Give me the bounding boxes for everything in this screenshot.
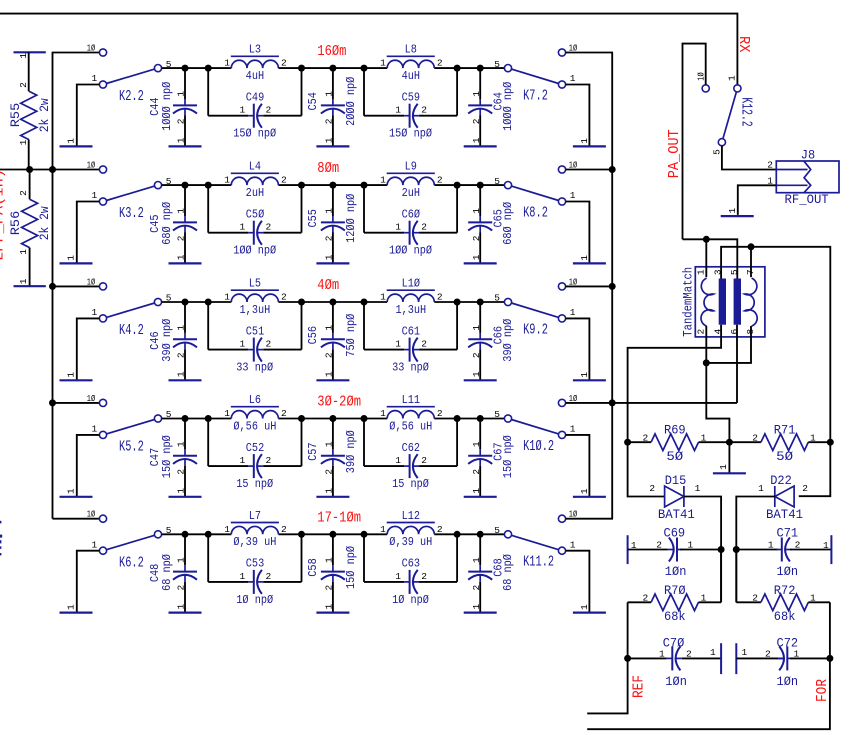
svg-text:C63: C63	[402, 558, 420, 571]
svg-text:1: 1	[710, 647, 716, 658]
capacitor C62 (parallel with L11)	[363, 419, 365, 467]
junction node x=332.9	[329, 182, 336, 189]
capacitor C64	[479, 68, 481, 99]
capacitor C66	[479, 302, 481, 333]
diode D22	[775, 486, 794, 507]
svg-text:1: 1	[718, 464, 729, 470]
ground	[721, 215, 754, 217]
svg-text:C5Ø: C5Ø	[246, 209, 265, 222]
ground	[169, 379, 202, 381]
svg-text:1: 1	[471, 371, 482, 377]
svg-text:1: 1	[324, 325, 335, 331]
svg-text:1: 1	[380, 292, 386, 303]
capacitor C55	[332, 185, 334, 216]
svg-text:68k: 68k	[774, 610, 796, 625]
junction node x=457.1	[454, 65, 461, 72]
junction node x=457.1	[454, 531, 461, 538]
svg-text:2: 2	[795, 540, 801, 551]
inductor L8	[387, 60, 434, 68]
junction node x=364	[361, 182, 368, 189]
junction right bus row 4	[609, 399, 616, 406]
svg-text:C57: C57	[307, 442, 320, 460]
svg-text:2: 2	[471, 235, 482, 241]
capacitor C71	[736, 549, 778, 551]
svg-text:RF_OUT: RF_OUT	[785, 192, 830, 207]
wire FOR output	[587, 658, 830, 729]
ground	[573, 379, 606, 381]
wire between inductors	[278, 301, 387, 303]
junction node x=332.9	[329, 531, 336, 538]
svg-text:2: 2	[437, 175, 443, 186]
diode D15	[665, 486, 684, 507]
svg-text:Ø,39 uH: Ø,39 uH	[389, 537, 432, 550]
wire relay pin 5 to L input	[162, 184, 232, 186]
capacitor C67	[479, 419, 481, 450]
wire between inductors	[278, 67, 387, 69]
wire center node to ground	[728, 442, 730, 473]
wire relay pin 1 to ground	[566, 202, 590, 264]
svg-text:1: 1	[239, 455, 245, 466]
svg-text:REF: REF	[631, 675, 648, 698]
svg-text:C53: C53	[246, 558, 264, 571]
capacitor C50 (parallel with L4)	[207, 185, 209, 233]
wire relay pin 1 to ground	[566, 435, 590, 497]
svg-text:1Ø: 1Ø	[87, 159, 95, 170]
svg-text:1: 1	[395, 455, 401, 466]
junction node x=301.5	[298, 531, 305, 538]
svg-text:C51: C51	[246, 326, 265, 339]
terminal pin 1 of R56 (bottom bar)	[14, 285, 46, 287]
svg-text:1: 1	[810, 432, 816, 443]
svg-text:2: 2	[686, 649, 692, 660]
svg-text:1: 1	[687, 540, 693, 551]
svg-text:K4.2: K4.2	[119, 321, 144, 338]
svg-text:1: 1	[324, 254, 335, 260]
svg-text:1: 1	[324, 603, 335, 609]
capacitor C63 (parallel with L12)	[363, 534, 365, 582]
wire TandemMatch pins 2,8 to center node	[706, 326, 729, 442]
svg-text:2: 2	[421, 571, 427, 582]
capacitor C49 (parallel with L3)	[207, 68, 209, 116]
relay K8.2	[504, 182, 511, 189]
capacitor C68	[479, 534, 481, 565]
svg-text:L11: L11	[402, 394, 421, 407]
svg-text:L7: L7	[249, 510, 261, 523]
capacitor C45	[184, 185, 186, 216]
svg-text:2: 2	[649, 483, 655, 494]
resistor R72	[736, 601, 761, 603]
svg-text:6: 6	[729, 328, 740, 334]
wire TandemMatch pin 6 to filter bus (row 4 line)	[736, 325, 738, 403]
capacitor C47	[184, 419, 186, 450]
ground	[573, 262, 606, 264]
svg-text:2: 2	[265, 455, 271, 466]
svg-text:1: 1	[224, 292, 230, 303]
terminal pin of C72 (left bar)	[735, 643, 737, 674]
ground	[60, 145, 93, 147]
junction node x=364	[361, 299, 368, 306]
resistor R55	[28, 52, 30, 91]
inductor L10	[387, 294, 434, 302]
svg-text:1Øn: 1Øn	[777, 675, 799, 690]
wire right relay pin 10 to bus	[566, 285, 613, 287]
svg-text:2: 2	[324, 352, 335, 358]
svg-text:1: 1	[18, 53, 29, 59]
svg-text:2: 2	[176, 584, 187, 590]
svg-text:1: 1	[65, 488, 76, 494]
junction input/R56 node	[26, 166, 33, 173]
svg-text:C62: C62	[402, 442, 420, 455]
junction node x=301.5	[298, 65, 305, 72]
svg-text:5: 5	[494, 59, 500, 70]
svg-text:1: 1	[380, 175, 386, 186]
svg-text:D22: D22	[770, 473, 792, 488]
svg-text:C55: C55	[307, 209, 320, 227]
svg-text:75Ø npØ: 75Ø npØ	[345, 313, 358, 356]
svg-text:1: 1	[65, 138, 76, 144]
junction node x=480.2	[477, 299, 484, 306]
svg-text:15 npØ: 15 npØ	[236, 478, 273, 491]
relay K6.2	[99, 515, 106, 522]
wire TandemMatch pin 4 to detector left bus	[628, 325, 722, 497]
svg-text:1Ø: 1Ø	[87, 276, 95, 287]
wire relay pin 1 to ground	[566, 551, 590, 613]
svg-text:1: 1	[741, 647, 747, 658]
svg-text:39Ø npØ: 39Ø npØ	[345, 430, 358, 473]
svg-text:1Ø: 1Ø	[87, 42, 95, 53]
svg-text:1: 1	[570, 539, 576, 550]
ground	[316, 262, 349, 264]
svg-text:1: 1	[324, 371, 335, 377]
junction R71 right	[827, 439, 834, 446]
svg-text:C58: C58	[307, 558, 320, 576]
svg-text:3Ø-2Øm: 3Ø-2Øm	[317, 395, 361, 411]
junction left bus row 3	[49, 283, 56, 290]
inductor L6	[231, 411, 278, 419]
wire relay pin 5 to L input	[162, 418, 232, 420]
svg-text:1: 1	[324, 488, 335, 494]
svg-text:4uH: 4uH	[246, 70, 264, 83]
svg-text:2: 2	[765, 649, 771, 660]
svg-text:R7Ø: R7Ø	[664, 583, 686, 598]
svg-text:1: 1	[570, 73, 576, 84]
svg-text:C69: C69	[664, 526, 686, 541]
svg-text:C7Ø: C7Ø	[663, 636, 685, 651]
svg-text:L9: L9	[405, 161, 417, 174]
svg-text:2k 2w: 2k 2w	[37, 98, 52, 133]
junction node x=332.9	[329, 299, 336, 306]
svg-text:Ø,39 uH: Ø,39 uH	[233, 537, 276, 550]
wire D15 cathode down	[684, 497, 721, 603]
junction C71/D22/R72	[733, 546, 740, 553]
junction C70/R70/REF	[624, 655, 631, 662]
junction node x=185	[182, 531, 189, 538]
svg-text:1: 1	[91, 539, 97, 550]
svg-text:C71: C71	[777, 526, 799, 541]
svg-text:L4: L4	[249, 161, 262, 174]
svg-text:C54: C54	[307, 92, 320, 111]
wire D22 cathode down	[736, 497, 775, 603]
junction pins 2/8	[703, 359, 710, 366]
junction C72/R72/FOR	[826, 655, 833, 662]
inductor L11	[387, 411, 434, 419]
capacitor C61 (parallel with L10)	[363, 302, 365, 350]
svg-text:J8: J8	[801, 148, 815, 163]
svg-text:K1Ø.2: K1Ø.2	[523, 437, 554, 454]
wire R70 right up to C69 node	[720, 550, 722, 603]
wire between inductors	[278, 184, 387, 186]
svg-text:2k 2w: 2k 2w	[37, 206, 52, 241]
junction node x=364	[361, 65, 368, 72]
svg-text:2: 2	[265, 571, 271, 582]
junction node x=332.9	[329, 65, 336, 72]
svg-text:1: 1	[91, 307, 97, 318]
junction node x=208.2	[205, 531, 212, 538]
svg-text:68k: 68k	[664, 610, 686, 625]
svg-text:2: 2	[696, 328, 707, 334]
svg-text:2: 2	[265, 105, 271, 116]
junction pin1 feed	[703, 236, 710, 243]
svg-text:1: 1	[395, 571, 401, 582]
svg-text:4uH: 4uH	[402, 70, 420, 83]
relay K9.2	[504, 298, 511, 305]
svg-text:39Ø npØ: 39Ø npØ	[161, 318, 174, 361]
svg-text:1: 1	[239, 222, 245, 233]
wire right relay common bus	[611, 53, 613, 519]
svg-text:1: 1	[65, 255, 76, 261]
ground	[169, 145, 202, 147]
svg-text:2: 2	[324, 235, 335, 241]
inductor L7	[231, 526, 278, 534]
capacitor C53 (parallel with L7)	[207, 534, 209, 582]
capacitor C70	[628, 657, 667, 659]
svg-text:2: 2	[324, 584, 335, 590]
ground	[316, 379, 349, 381]
junction node x=185	[182, 415, 189, 422]
ground	[60, 379, 93, 381]
terminal pin 1 of R55 (top bar)	[14, 51, 46, 53]
svg-text:1: 1	[727, 207, 738, 213]
ground	[60, 496, 93, 498]
svg-text:C56: C56	[307, 326, 320, 344]
svg-text:K3.2: K3.2	[119, 204, 144, 221]
svg-text:2: 2	[767, 160, 773, 171]
svg-text:2: 2	[176, 235, 187, 241]
svg-text:2: 2	[802, 483, 808, 494]
junction node x=364	[361, 531, 368, 538]
svg-text:2: 2	[642, 593, 648, 604]
junction node x=480.2	[477, 65, 484, 72]
capacitor C59 (parallel with L8)	[363, 68, 365, 116]
svg-text:1: 1	[324, 91, 335, 97]
inductor L9	[387, 177, 434, 185]
svg-text:2: 2	[281, 58, 287, 69]
wire L output to relay pin 5	[434, 533, 504, 535]
wire R72 right down to C72 node	[829, 602, 831, 658]
svg-text:5: 5	[494, 176, 500, 187]
svg-text:1: 1	[579, 372, 590, 378]
svg-text:Ø,56 uH: Ø,56 uH	[233, 421, 276, 434]
capacitor C57	[332, 419, 334, 450]
svg-text:1: 1	[324, 208, 335, 214]
wire RX net from receiver to K12.2 pin 1	[0, 14, 737, 85]
capacitor C46	[184, 302, 186, 333]
wire L output to relay pin 5	[434, 184, 504, 186]
junction node x=457.1	[454, 182, 461, 189]
svg-text:33 npØ: 33 npØ	[236, 362, 273, 375]
wire relay pin 1 to ground	[566, 85, 590, 147]
ground	[464, 262, 497, 264]
svg-text:17-1Øm: 17-1Øm	[317, 510, 361, 526]
capacitor C51 (parallel with L5)	[207, 302, 209, 350]
svg-text:2: 2	[421, 455, 427, 466]
ground	[169, 611, 202, 613]
svg-text:1: 1	[758, 483, 764, 494]
ground	[573, 145, 606, 147]
wire REF output	[587, 658, 627, 713]
inductor L3	[231, 60, 278, 68]
wire relay pin 5 to L input	[162, 301, 232, 303]
wire relay pin 1 to ground	[77, 202, 100, 264]
svg-text:R71: R71	[774, 423, 796, 438]
wire L output to relay pin 5	[434, 67, 504, 69]
svg-text:68Ø npØ: 68Ø npØ	[503, 202, 516, 245]
inductor L12	[387, 526, 434, 534]
svg-text:2: 2	[752, 593, 758, 604]
svg-text:1ØØØ npØ: 1ØØØ npØ	[161, 81, 174, 130]
relay K11.2	[504, 531, 511, 538]
svg-text:8Øm: 8Øm	[317, 161, 339, 177]
svg-text:R72: R72	[774, 583, 796, 598]
svg-text:1: 1	[91, 190, 97, 201]
svg-text:L8: L8	[405, 44, 417, 57]
svg-text:1: 1	[701, 593, 707, 604]
wire relay pin 5 to L input	[162, 67, 232, 69]
svg-text:Ø,56 uH: Ø,56 uH	[389, 421, 432, 434]
svg-text:C6Ø: C6Ø	[402, 209, 421, 222]
connector J8	[776, 161, 839, 193]
svg-text:2: 2	[421, 339, 427, 350]
svg-text:68 npØ: 68 npØ	[161, 554, 174, 591]
svg-text:2: 2	[471, 584, 482, 590]
ground	[316, 496, 349, 498]
svg-text:1: 1	[823, 540, 829, 551]
svg-text:1: 1	[570, 424, 576, 435]
svg-text:L5: L5	[249, 278, 261, 291]
wire J8 pin 1 to ground	[738, 185, 777, 215]
svg-text:1: 1	[91, 73, 97, 84]
svg-text:1Øn: 1Øn	[777, 565, 799, 580]
svg-text:2: 2	[281, 524, 287, 535]
wire left relay common bus	[52, 53, 54, 519]
ground	[316, 611, 349, 613]
svg-text:1: 1	[471, 603, 482, 609]
svg-text:2: 2	[421, 222, 427, 233]
svg-text:1: 1	[726, 75, 737, 81]
svg-text:2: 2	[471, 469, 482, 475]
wire input line from PA (row 2 feed)	[0, 169, 99, 171]
svg-text:1: 1	[224, 524, 230, 535]
junction node x=480.2	[477, 415, 484, 422]
svg-text:1: 1	[579, 488, 590, 494]
svg-text:1: 1	[395, 222, 401, 233]
wire R72 left up to C71 node	[735, 550, 737, 603]
svg-text:1Øn: 1Øn	[665, 565, 687, 580]
svg-text:2uH: 2uH	[246, 187, 264, 200]
junction node x=185	[182, 65, 189, 72]
junction node x=364	[361, 415, 368, 422]
relay K4.2	[99, 283, 106, 290]
svg-text:D15: D15	[665, 473, 687, 488]
svg-text:15 npØ: 15 npØ	[392, 478, 429, 491]
svg-text:1Øn: 1Øn	[665, 675, 687, 690]
junction node x=208.2	[205, 182, 212, 189]
wire between inductors	[278, 418, 387, 420]
svg-text:5: 5	[712, 149, 723, 155]
svg-text:2: 2	[437, 524, 443, 535]
svg-text:15Ø npØ: 15Ø npØ	[345, 546, 358, 589]
svg-text:1: 1	[176, 557, 187, 563]
svg-text:15Ø npØ: 15Ø npØ	[161, 435, 174, 478]
svg-text:2: 2	[471, 352, 482, 358]
svg-text:1: 1	[176, 208, 187, 214]
svg-text:1: 1	[570, 307, 576, 318]
terminal pin of C69 (left bar)	[627, 535, 629, 564]
svg-text:1: 1	[324, 557, 335, 563]
svg-text:2: 2	[265, 339, 271, 350]
relay K3.2	[99, 166, 106, 173]
svg-text:1ØØ npØ: 1ØØ npØ	[389, 245, 432, 258]
terminal pin of C70 (right bar)	[720, 643, 722, 674]
svg-text:BAT41: BAT41	[766, 507, 803, 522]
svg-text:1: 1	[471, 325, 482, 331]
svg-text:L1Ø: L1Ø	[402, 278, 421, 291]
svg-text:LPF_PA(in): LPF_PA(in)	[0, 169, 7, 261]
svg-text:1Ø: 1Ø	[87, 393, 95, 404]
svg-text:1: 1	[18, 278, 29, 284]
ground	[169, 496, 202, 498]
svg-text:2: 2	[176, 352, 187, 358]
svg-text:1: 1	[18, 249, 29, 255]
svg-text:68 npØ: 68 npØ	[503, 554, 516, 591]
svg-text:1Ø npØ: 1Ø npØ	[392, 594, 429, 607]
svg-text:1: 1	[176, 137, 187, 143]
junction left bus row 4	[49, 399, 56, 406]
svg-text:2: 2	[18, 82, 29, 88]
svg-text:C61: C61	[402, 326, 421, 339]
svg-text:1Ø npØ: 1Ø npØ	[236, 594, 273, 607]
capacitor C48	[184, 534, 186, 565]
svg-text:C59: C59	[402, 92, 420, 105]
wire right relay pin 10 to bus	[566, 169, 613, 171]
svg-text:1,3uH: 1,3uH	[395, 304, 426, 317]
junction pin7 feed	[748, 243, 755, 250]
svg-text:2: 2	[471, 118, 482, 124]
capacitor C54	[332, 68, 334, 99]
svg-text:1: 1	[471, 137, 482, 143]
wire L output to relay pin 5	[434, 301, 504, 303]
relay K7.2	[504, 65, 511, 72]
svg-text:1: 1	[18, 139, 29, 145]
svg-text:1: 1	[176, 254, 187, 260]
wire left relay pin 10 to bus	[53, 402, 100, 404]
junction center node	[726, 439, 733, 446]
svg-text:1: 1	[579, 255, 590, 261]
wire relay pin 1 to ground	[77, 435, 100, 497]
junction node x=185	[182, 182, 189, 189]
wire relay pin 1 to ground	[566, 318, 590, 380]
resistor R56	[29, 170, 31, 200]
